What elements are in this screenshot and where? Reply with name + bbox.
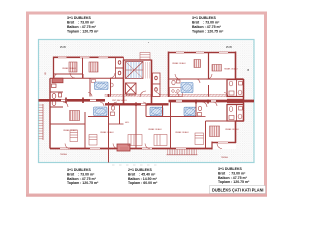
svg-text:Brüt : 73.00 m²: Brüt : 73.00 m² — [192, 21, 220, 25]
duct strip right of stairs — [146, 62, 150, 79]
text block bottom-left — [67, 168, 99, 185]
tiny dimension labels — [45, 42, 250, 76]
left service block (red filled) — [52, 78, 63, 83]
wall: right unit left — [168, 52, 170, 98]
svg-text:2+1 DUBLEKS: 2+1 DUBLEKS — [128, 168, 152, 172]
svg-text:Toplam : 120.75 m²: Toplam : 120.75 m² — [192, 29, 224, 33]
small red service block bottom center-left — [117, 144, 130, 151]
bottom frame emphasis — [26, 194, 267, 196]
bathtub T2 — [181, 83, 193, 93]
svg-text:Balkon : 14.50 m²: Balkon : 14.50 m² — [128, 177, 158, 181]
wall: bath column right — [243, 79, 245, 121]
window gaps on right unit top wall — [176, 52, 228, 54]
svg-text:ASANSÖR: ASANSÖR — [126, 94, 137, 97]
svg-text:YATAK ODASI: YATAK ODASI — [100, 131, 114, 134]
wall: bath column bottom — [236, 120, 244, 122]
building white footprint: right bathroom column — [227, 79, 244, 121]
text block bottom-middle — [128, 168, 158, 185]
bath column corridor band — [227, 99, 244, 103]
wardrobe hatch right unit a — [194, 60, 201, 68]
title box — [210, 186, 266, 194]
building white footprint: left small-room column — [50, 78, 63, 107]
window gaps on left unit top wall — [58, 56, 108, 58]
bathtub T3 — [94, 107, 108, 116]
wardrobe hatch bottom-left unit — [70, 111, 80, 121]
svg-text:Brüt : 73.00 m²: Brüt : 73.00 m² — [218, 171, 246, 175]
wall: right unit right — [235, 52, 237, 80]
building white footprint: right top unit — [169, 52, 236, 98]
svg-text:3+1 DUBLEKS: 3+1 DUBLEKS — [218, 167, 242, 171]
building white footprint: stair core — [124, 60, 152, 98]
small bath left-center walls and fixtures — [119, 104, 121, 125]
wall: left unit inner vertical 1 — [82, 58, 84, 79]
bathroom block upper outline — [227, 80, 244, 97]
svg-text:B: B — [45, 72, 47, 76]
wall: core right — [151, 60, 153, 106]
wall: building bottom right step — [212, 142, 236, 144]
building white footprint: left top unit — [54, 56, 124, 97]
wall: corridor band left zone — [39, 99, 106, 102]
window gaps on bottom wall — [60, 143, 228, 149]
left unit bedroom divider wall — [54, 73, 84, 75]
cells right of core — [153, 73, 161, 97]
svg-text:YATAK ODASI: YATAK ODASI — [175, 131, 189, 134]
small cells left of core — [116, 58, 124, 79]
corridor hall white — [105, 97, 169, 103]
wall: core top — [124, 59, 152, 61]
wall: left unit lower verticals — [89, 78, 91, 96]
svg-text:Toplam : 60.00 m²: Toplam : 60.00 m² — [128, 181, 158, 185]
text block top-right — [192, 16, 224, 33]
elevator shaft with X brace — [126, 83, 137, 94]
wall: corridor band middle zone (hall bottom) — [105, 103, 169, 105]
bathroom block lower outline — [227, 105, 244, 122]
wall: left unit left — [53, 57, 55, 79]
left balcony rail line — [42, 104, 44, 140]
svg-text:YATAK ODASI: YATAK ODASI — [224, 68, 238, 71]
svg-text:3+1 DUBLEKS: 3+1 DUBLEKS — [67, 16, 91, 20]
svg-text:YATAK ODASI: YATAK ODASI — [148, 128, 162, 131]
pink page frame — [28, 13, 266, 195]
small bath mid-right fixtures — [198, 106, 202, 116]
window glazing thin lines — [58, 52, 228, 149]
bathtub T1 — [95, 82, 109, 90]
bottom row inner walls — [50, 102, 236, 163]
svg-text:25.05: 25.05 — [60, 47, 66, 49]
svg-text:Toplam : 120.75 m²: Toplam : 120.75 m² — [67, 181, 99, 185]
svg-text:3+1 DUBLEKS: 3+1 DUBLEKS — [67, 168, 91, 172]
door arcs — [54, 73, 228, 149]
wall: left unit inner horizontal — [54, 77, 124, 79]
svg-text:25.05: 25.05 — [226, 47, 232, 49]
bathtub T4 — [150, 107, 163, 116]
WC fixtures right unit — [172, 80, 180, 85]
wall: right unit top — [169, 52, 237, 54]
wardrobe hatch right unit b — [212, 65, 222, 72]
bathroom fixtures right column lower — [229, 107, 242, 120]
tiny room labels — [60, 62, 239, 156]
wall: core left — [123, 60, 125, 106]
wardrobe hatch left unit b — [89, 62, 98, 72]
wardrobe hatch bottom-right unit — [210, 126, 220, 137]
corridor hatched strip — [105, 94, 227, 97]
wall: corridor band right zone — [169, 100, 255, 103]
wall: bottom row right — [235, 121, 237, 143]
wall: right unit inner vertical — [208, 53, 210, 80]
left balcony rail ticks — [39, 105, 44, 139]
wall: right unit lower vertical — [208, 85, 210, 97]
svg-text:Brüt : 73.00 m²: Brüt : 73.00 m² — [67, 21, 95, 25]
svg-text:Toplam : 120.75 m²: Toplam : 120.75 m² — [67, 29, 99, 33]
svg-text:Balkon : 47.75 m²: Balkon : 47.75 m² — [218, 176, 248, 180]
dimension tick row below terrace — [112, 164, 157, 166]
wall: left column outer — [49, 78, 51, 107]
svg-text:3+1 DUBLEKS: 3+1 DUBLEKS — [192, 16, 216, 20]
staircase block — [126, 62, 144, 79]
bottom terrace rail ticks — [168, 150, 197, 155]
wardrobe hatch left unit a — [69, 62, 77, 72]
wall: left column mid divider — [50, 91, 63, 93]
svg-text:Balkon : 47.75 m²: Balkon : 47.75 m² — [192, 25, 222, 29]
entry steps above core — [140, 53, 150, 60]
text block top-left — [67, 16, 99, 33]
svg-text:Balkon : 47.75 m²: Balkon : 47.75 m² — [67, 177, 97, 181]
svg-text:YATAK ODASI: YATAK ODASI — [62, 67, 76, 70]
WC fixtures left (toilet ovals) — [52, 84, 62, 106]
wall: bath column top — [236, 78, 244, 80]
wall: left unit top — [54, 56, 124, 58]
gaps in corridor bands — [61, 100, 216, 104]
building white footprint: bottom row — [50, 97, 236, 149]
terrace boundary (cyan) with dot texture — [39, 40, 255, 163]
svg-text:YATAK ODASI: YATAK ODASI — [225, 128, 239, 131]
svg-text:ÜST KAT HOLÜ: ÜST KAT HOLÜ — [112, 99, 127, 102]
sink left bath — [92, 80, 114, 88]
svg-text:Balkon : 47.75 m²: Balkon : 47.75 m² — [67, 25, 97, 29]
bathtub T5 — [184, 107, 196, 116]
wall: left column top — [50, 77, 63, 79]
svg-text:Brüt : 73.00 m²: Brüt : 73.00 m² — [67, 172, 95, 176]
svg-text:Toplam : 120.75 m²: Toplam : 120.75 m² — [218, 180, 250, 184]
kitchen counter right unit — [170, 88, 183, 97]
svg-text:YATAK ODASI: YATAK ODASI — [172, 62, 186, 65]
bathroom fixtures right column upper — [229, 81, 242, 95]
svg-text:TERAS: TERAS — [221, 156, 229, 159]
wall: right unit inner horizontal — [169, 78, 236, 80]
wall: bottom-left unit left — [49, 107, 51, 149]
beds — [70, 130, 204, 146]
core door arc — [140, 91, 146, 97]
wall: building bottom left part — [50, 148, 212, 150]
svg-text:DUBLEKS ÇATI KATI PLANI: DUBLEKS ÇATI KATI PLANI — [212, 188, 264, 193]
text block bottom-right — [218, 167, 250, 184]
bottom terrace rail line — [167, 154, 198, 156]
svg-text:Brüt : 45.40 m²: Brüt : 45.40 m² — [128, 172, 156, 176]
wall: left column bottom — [50, 106, 63, 108]
wall: bottom step connector — [211, 142, 213, 150]
svg-text:TERAS: TERAS — [60, 153, 68, 156]
corridor junction piers — [66, 94, 208, 106]
